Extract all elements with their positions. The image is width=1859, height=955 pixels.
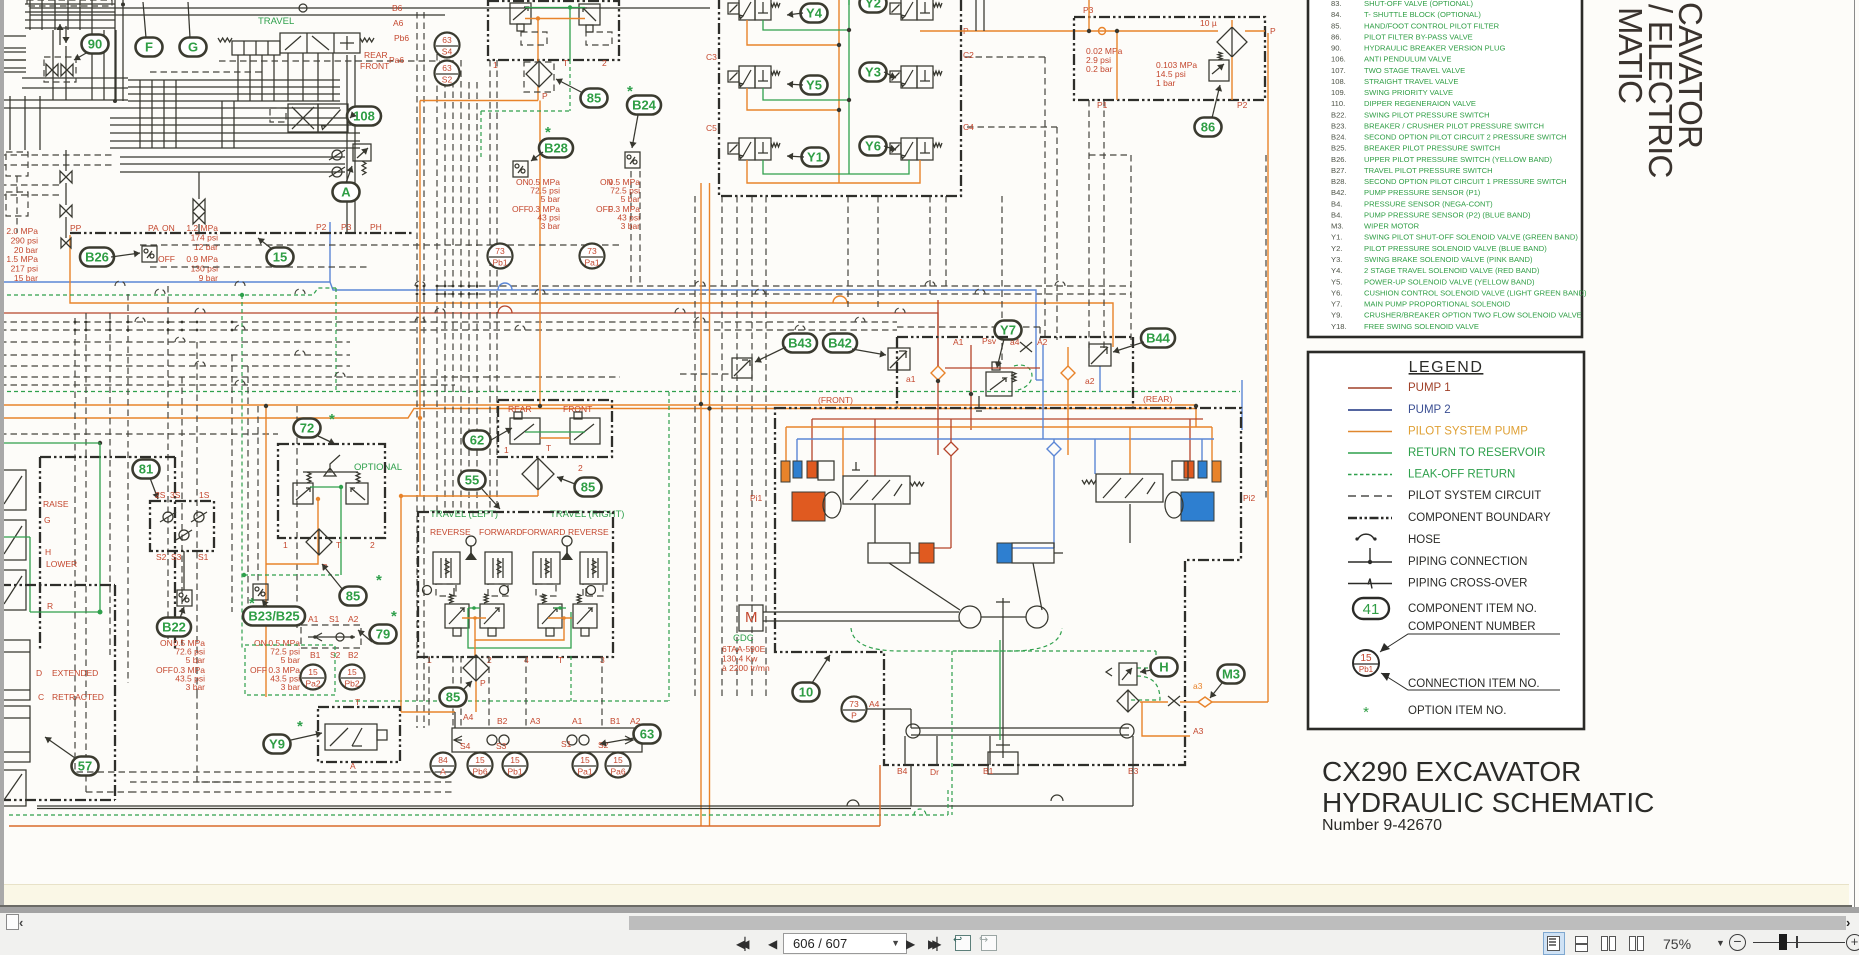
svg-text:Y2: Y2 [865, 0, 881, 11]
wire green return [9, 814, 948, 816]
svg-text:A: A [341, 185, 351, 200]
pump P1 circle [959, 606, 981, 628]
wire blue A2 drop [1042, 380, 1044, 439]
filter 85 diamond [526, 61, 552, 87]
svg-text:B27.: B27. [1331, 166, 1347, 175]
wire sensor drop x1104 [1103, 100, 1105, 350]
component Y2 callout [860, 0, 887, 13]
solenoid valve Y3 [890, 66, 942, 88]
svg-text:H: H [1159, 660, 1168, 675]
svg-text:PILOT SYSTEM PUMP: PILOT SYSTEM PUMP [1408, 426, 1528, 438]
wire pilot drop x453 [452, 60, 454, 512]
svg-text:TWO STAGE TRAVEL VALVE: TWO STAGE TRAVEL VALVE [1364, 66, 1465, 75]
pump servo REAR colored [1212, 461, 1221, 482]
filter 85 left diamond [463, 655, 489, 681]
wire pilot bus y355 [0, 354, 350, 356]
wire sensor drop x1089 [1088, 100, 1090, 350]
svg-text:B23/B25: B23/B25 [248, 609, 299, 624]
wire psv dashed row [897, 326, 1040, 328]
valve pilot R [579, 4, 600, 25]
wire pilot bus y286 [437, 285, 1131, 287]
valve travel main [280, 33, 360, 53]
svg-text:3 bar: 3 bar [621, 221, 641, 231]
wire orange pump drop [1195, 409, 1197, 428]
svg-text:SWING BRAKE SOLENOID VALVE (PI: SWING BRAKE SOLENOID VALVE (PINK BAND) [1364, 255, 1533, 264]
wire A4 drop [454, 712, 456, 728]
svg-text:57: 57 [78, 759, 92, 774]
svg-text:9 bar: 9 bar [199, 273, 219, 283]
label 15 [267, 248, 294, 267]
svg-text:F: F [145, 40, 153, 55]
leak green box [245, 645, 335, 695]
wire pilot bus y330 [0, 329, 897, 331]
component boundary Y9 [318, 707, 400, 762]
svg-text:PRESSURE SENSOR (NEGA-CONT): PRESSURE SENSOR (NEGA-CONT) [1364, 199, 1493, 208]
wire sensor drop x1002 [1001, 196, 1003, 360]
wire orange main [1089, 30, 1218, 32]
wire mesh rails G [0, 51, 26, 53]
svg-text:a4: a4 [1010, 337, 1020, 347]
svg-text:Y2.: Y2. [1331, 244, 1342, 253]
wire mesh rails C [110, 117, 360, 119]
svg-text:RETURN TO RESERVOIR: RETURN TO RESERVOIR [1408, 447, 1545, 459]
component boundary left [40, 456, 175, 458]
svg-text:HYDRAULIC SCHEMATIC: HYDRAULIC SCHEMATIC [1322, 787, 1654, 818]
legend item PILOT SYSTEM PUMP [1348, 431, 1392, 433]
svg-text:C: C [38, 692, 44, 702]
svg-text:15: 15 [1360, 653, 1372, 664]
svg-text:ON: ON [160, 638, 173, 648]
label 10 [793, 683, 820, 702]
wire orange pump row [786, 426, 1212, 428]
wire 72 orange [266, 500, 318, 564]
connection 15/Pa1 [573, 753, 598, 778]
wire solenoid drop x752 [751, 196, 753, 700]
svg-text:2: 2 [602, 58, 607, 68]
horizontal scrollbar track [0, 913, 1859, 930]
svg-text:PUMP PRESSURE SENSOR (P2) (BLU: PUMP PRESSURE SENSOR (P2) (BLUE BAND) [1364, 210, 1531, 219]
piping cross [1020, 342, 1032, 352]
piping cross orange [1168, 696, 1180, 706]
svg-text:S4: S4 [460, 741, 471, 751]
svg-text:Pi1: Pi1 [750, 493, 763, 503]
svg-text:5 bar: 5 bar [621, 194, 641, 204]
svg-text:Psv: Psv [982, 336, 997, 346]
svg-text:PIPING CONNECTION: PIPING CONNECTION [1408, 556, 1527, 568]
valve 90 element 2 [61, 64, 73, 76]
svg-text:A2: A2 [348, 614, 359, 624]
svg-text:PILOT SYSTEM CIRCUIT: PILOT SYSTEM CIRCUIT [1408, 490, 1541, 502]
label 85 [440, 688, 467, 707]
svg-text:P: P [480, 678, 486, 688]
label B26 [80, 248, 114, 267]
pilot lever 72 [303, 455, 358, 476]
wire travel orange long [475, 618, 564, 640]
connection 15/Pa2 [301, 665, 326, 690]
svg-text:*: * [627, 83, 633, 100]
svg-text:Pb6: Pb6 [394, 33, 409, 43]
regulator FRONT [843, 476, 910, 504]
history back/forward icons [955, 935, 971, 951]
svg-text:Y7.: Y7. [1331, 300, 1342, 309]
svg-text:5 bar: 5 bar [186, 655, 206, 665]
label Y9 [264, 735, 291, 754]
wire sensor drop x1045 [1044, 57, 1046, 340]
svg-text:A3: A3 [530, 716, 541, 726]
cylinder C [0, 706, 30, 762]
wire motor links [763, 611, 959, 613]
svg-text:Y1: Y1 [807, 150, 823, 165]
svg-text:BREAKER PILOT PRESSURE SWITCH: BREAKER PILOT PRESSURE SWITCH [1364, 144, 1500, 153]
svg-text:15: 15 [347, 667, 357, 677]
legend item RETURN TO RESERVOIR [1348, 452, 1392, 454]
svg-text:OFF: OFF [512, 204, 529, 214]
valve travel pilot R [570, 418, 600, 444]
svg-text:85: 85 [587, 91, 601, 106]
wire green loop [0, 442, 100, 444]
label B24 [627, 96, 661, 115]
check pair 2 [567, 735, 577, 745]
wire solenoid drop x722 [721, 196, 723, 700]
wire return main [37, 805, 1133, 807]
label 81 [133, 460, 160, 479]
label B43 [783, 334, 817, 353]
svg-text:T: T [563, 58, 568, 68]
svg-text:B4: B4 [897, 766, 908, 776]
svg-text:41: 41 [1363, 601, 1380, 618]
svg-text:UPPER PILOT PRESSURE SWITCH (Y: UPPER PILOT PRESSURE SWITCH (YELLOW BAND… [1364, 155, 1553, 164]
svg-text:ON: ON [254, 638, 267, 648]
component boundary 81 [150, 501, 214, 551]
wire green drain long [958, 650, 1156, 652]
wire blue reg [1094, 439, 1096, 474]
wire servo links [874, 504, 876, 543]
svg-text:PH: PH [370, 222, 382, 232]
legend item CONNECTION ITEM NO. [1381, 673, 1560, 690]
label F [136, 38, 163, 57]
label 55 [459, 471, 486, 490]
wire sensor drop x631 [630, 171, 632, 283]
valve 79 box [301, 625, 361, 648]
valve travel pilot assembly [232, 41, 280, 55]
gear box [988, 752, 1018, 774]
wire orange drops [1116, 31, 1118, 100]
svg-text:86.: 86. [1331, 32, 1342, 41]
wire orange P3 [1088, 0, 1090, 31]
svg-text:B24: B24 [632, 98, 657, 113]
wire travel drops [237, 55, 239, 101]
wire sensor drop x1131 [1130, 155, 1132, 345]
svg-text:Y9.: Y9. [1331, 311, 1342, 320]
svg-text:REAR: REAR [364, 50, 388, 60]
svg-text:Pa6: Pa6 [610, 767, 625, 777]
wire blue pump row [797, 438, 1214, 440]
svg-text:*: * [391, 608, 397, 625]
svg-text:63: 63 [442, 35, 452, 45]
svg-text:C4: C4 [963, 122, 974, 132]
connection 63/S2 [435, 61, 460, 86]
svg-text:10: 10 [799, 685, 813, 700]
wire travel green long [468, 608, 571, 648]
page bottom cream edge [4, 884, 1849, 907]
wire orange pilot supply bus [0, 404, 1196, 406]
svg-text:S2: S2 [442, 75, 453, 85]
svg-text:1: 1 [504, 445, 509, 455]
wire pilot drop x128 [127, 294, 129, 683]
component boundary pump [775, 408, 1241, 765]
legend item COMPONENT ITEM NO. [1353, 598, 1389, 619]
nav next page buttons [906, 937, 915, 951]
label M3 [1218, 665, 1245, 684]
wire mesh rails B [0, 99, 128, 101]
wire pilot bus y342 [0, 341, 350, 343]
label 62 [464, 431, 491, 450]
svg-text:Pb6: Pb6 [472, 767, 487, 777]
svg-text:6TAA-590E: 6TAA-590E [722, 644, 766, 654]
component boundary REAR/FRONT [498, 400, 612, 457]
wire pilot drop x437 [436, 54, 438, 512]
wire green pump drain [951, 651, 953, 815]
svg-text:Y4.: Y4. [1331, 266, 1342, 275]
svg-text:Pb1: Pb1 [507, 767, 522, 777]
label 72 [294, 419, 321, 438]
svg-text:STRAIGHT TRAVEL VALVE: STRAIGHT TRAVEL VALVE [1364, 77, 1458, 86]
svg-text:CRUSHER/BREAKER OPTION TWO FLO: CRUSHER/BREAKER OPTION TWO FLOW SOLENOID… [1364, 311, 1582, 320]
svg-text:B43: B43 [788, 336, 812, 351]
svg-text:B26.: B26. [1331, 155, 1347, 164]
wire blue pump2 line [0, 282, 1036, 380]
pump piston FRONT [868, 543, 910, 563]
wire mesh verts I [221, 101, 223, 148]
connection 15/Pb2 [340, 665, 365, 690]
svg-text:*: * [545, 124, 551, 141]
svg-text:1 bar: 1 bar [1156, 78, 1176, 88]
svg-text:S1: S1 [198, 552, 209, 562]
svg-text:B23.: B23. [1331, 121, 1347, 130]
svg-text:a3: a3 [1193, 681, 1203, 691]
legend item PUMP 1 [1348, 387, 1392, 389]
svg-text:90: 90 [88, 37, 102, 52]
component Y3 callout [860, 63, 887, 82]
svg-text:G: G [188, 40, 198, 55]
svg-text:Y5: Y5 [806, 78, 822, 93]
legend item PUMP 2 [1348, 409, 1392, 411]
wire red pump1 line [0, 313, 938, 366]
wire pilot drop x424 [423, 12, 425, 728]
svg-text:B2: B2 [348, 650, 359, 660]
svg-text:Pb2: Pb2 [344, 679, 359, 689]
svg-text:PUMP PRESSURE SENSOR (P1): PUMP PRESSURE SENSOR (P1) [1364, 188, 1481, 197]
label B22 [157, 618, 191, 637]
svg-text:S3: S3 [496, 741, 507, 751]
svg-text:PIPING CROSS-OVER: PIPING CROSS-OVER [1408, 578, 1528, 590]
svg-text:Pb1: Pb1 [1359, 665, 1374, 674]
svg-text:B1: B1 [310, 650, 321, 660]
wire orange tp [540, 437, 570, 439]
valve relief A [332, 150, 342, 160]
svg-text:à 2200 tr/mn: à 2200 tr/mn [722, 663, 770, 673]
junction dots [264, 404, 268, 408]
svg-text:3 bar: 3 bar [281, 682, 301, 692]
svg-text:M3.: M3. [1331, 222, 1344, 231]
svg-text:C5: C5 [706, 123, 717, 133]
svg-text:B2: B2 [497, 716, 508, 726]
sensor B26 [142, 246, 157, 262]
svg-text:10 µ: 10 µ [1200, 18, 1217, 28]
valve fragment bottom left [0, 770, 26, 806]
svg-text:MATIC: MATIC [1612, 7, 1649, 103]
filter 10 micron [1217, 27, 1247, 57]
wire green leak drop [569, 60, 571, 111]
svg-text:Y7: Y7 [1000, 323, 1016, 338]
wire green tp [525, 431, 585, 433]
pump servo FRONT colored [781, 461, 790, 482]
wire blue P2 stub [329, 222, 331, 282]
svg-text:B26: B26 [85, 250, 109, 265]
wire green link [525, 7, 585, 9]
svg-text:EXTENDED: EXTENDED [52, 668, 98, 678]
svg-text:15: 15 [308, 667, 318, 677]
svg-text:T- SHUTTLE BLOCK (OPTIONAL): T- SHUTTLE BLOCK (OPTIONAL) [1364, 10, 1481, 19]
label B42 [823, 334, 857, 353]
label B44 [1141, 329, 1175, 348]
svg-text:2: 2 [578, 463, 583, 473]
svg-text:ON: ON [162, 223, 175, 233]
pump piston REAR [1012, 543, 1054, 563]
svg-text:(FRONT): (FRONT) [818, 395, 853, 405]
svg-text:5 bar: 5 bar [541, 194, 561, 204]
svg-text:C3: C3 [706, 52, 717, 62]
solenoid valve Y2 [890, 0, 942, 20]
orange diamond a1 [931, 366, 945, 380]
orange diamond a2 [1061, 366, 1075, 380]
svg-text:63: 63 [640, 727, 654, 742]
valve travel pilot L [510, 418, 540, 444]
svg-text:PILOT FILTER BY-PASS VALVE: PILOT FILTER BY-PASS VALVE [1364, 32, 1473, 41]
legend box [1308, 352, 1584, 729]
wire Y2 risers [975, 0, 977, 31]
wire red a1 [937, 300, 939, 366]
label 86 [1195, 118, 1222, 137]
regulator REAR [1096, 474, 1163, 502]
wire orange solenoid bus [838, 0, 840, 183]
svg-text:2S: 2S [155, 490, 166, 500]
component Y4 callout [801, 4, 828, 23]
component boundary pressure block [1074, 17, 1265, 100]
wire 72 green [310, 486, 341, 488]
svg-text:Y18.: Y18. [1331, 322, 1347, 331]
connection 73/Pb1 [488, 244, 513, 269]
svg-text:a1: a1 [906, 374, 916, 384]
svg-text:55: 55 [465, 473, 479, 488]
page bottom border [0, 905, 1852, 907]
svg-text:15: 15 [580, 755, 590, 765]
scrollbar left stepper [6, 914, 19, 930]
svg-text:15: 15 [273, 250, 287, 265]
svg-text:2: 2 [370, 540, 375, 550]
svg-text:84.: 84. [1331, 10, 1342, 19]
sensor B43 target [732, 358, 752, 378]
wire solenoid drop x766 [765, 196, 767, 700]
svg-text:84: 84 [438, 755, 448, 765]
component Y5 callout [801, 76, 828, 95]
svg-text:62: 62 [470, 433, 484, 448]
valve Y9 [325, 724, 377, 750]
svg-text:S1: S1 [329, 614, 340, 624]
svg-text:109.: 109. [1331, 88, 1346, 97]
wire mesh rails A [128, 79, 340, 81]
svg-text:TRAVEL (LEFT): TRAVEL (LEFT) [430, 509, 498, 520]
wire red servo [950, 419, 952, 442]
svg-text:Dr: Dr [930, 767, 939, 777]
svg-text:15: 15 [475, 755, 485, 765]
wire pilot bus y366 [0, 365, 350, 367]
wire pilot drop x490 [489, 60, 491, 512]
svg-text:*: * [376, 572, 382, 589]
wire shaft bottom [867, 708, 911, 710]
label 57 [72, 757, 99, 776]
svg-text:86: 86 [1201, 120, 1215, 135]
svg-text:H: H [45, 547, 51, 557]
wire pilot drop x297 [296, 406, 298, 628]
label H [1151, 658, 1178, 677]
svg-text:A1: A1 [953, 337, 964, 347]
wire mesh verts [9, 96, 11, 150]
wire pilot drop x168 [167, 286, 169, 640]
svg-text:CONNECTION ITEM NO.: CONNECTION ITEM NO. [1408, 678, 1540, 690]
wire top verts [29, 0, 31, 30]
zoom slider [1753, 942, 1845, 944]
svg-text:SWING PRIORITY VALVE: SWING PRIORITY VALVE [1364, 88, 1453, 97]
component Y1 callout [802, 148, 829, 167]
svg-text:3S: 3S [170, 490, 181, 500]
svg-text:A4: A4 [869, 699, 880, 709]
wire pilot drop x75 [74, 318, 76, 700]
wire pilot bus y377 [0, 376, 620, 378]
svg-text:A1: A1 [572, 716, 583, 726]
svg-text:FORWARD: FORWARD [479, 527, 522, 537]
wire orange right edge [1267, 33, 1269, 697]
pump P2 circle [1026, 606, 1048, 628]
wire red hose hump [498, 306, 512, 313]
label 79 [370, 625, 397, 644]
svg-text:BREAKER / CRUSHER PILOT PRESSU: BREAKER / CRUSHER PILOT PRESSURE SWITCH [1364, 121, 1544, 130]
wire drop x1262 [1265, 155, 1267, 500]
svg-text:B28.: B28. [1331, 177, 1347, 186]
label Y7 [995, 321, 1022, 340]
valve 72 internals [293, 483, 313, 504]
svg-text:T: T [355, 697, 360, 707]
svg-text:RETRACTED: RETRACTED [52, 692, 104, 702]
svg-text:PP: PP [70, 223, 82, 233]
viewer gap [0, 907, 1859, 913]
svg-text:83.: 83. [1331, 0, 1342, 8]
wire sensor drop x878 [877, 196, 879, 307]
legend item PILOT SYSTEM CIRCUIT [1348, 495, 1392, 497]
svg-text:0.2 bar: 0.2 bar [1086, 64, 1113, 74]
svg-text:SWING PILOT SHUT-OFF SOLENOID: SWING PILOT SHUT-OFF SOLENOID VALVE (GRE… [1364, 233, 1578, 242]
legend connection circle [1353, 650, 1379, 676]
svg-text:73: 73 [587, 246, 597, 256]
wire red psv link [945, 367, 1040, 369]
svg-text:85: 85 [581, 480, 595, 495]
sensor B23/B25 [253, 584, 268, 600]
svg-text:CDC: CDC [733, 633, 754, 644]
svg-text:PUMP 1: PUMP 1 [1408, 382, 1451, 394]
orange check a3 [1198, 697, 1212, 707]
travel valves row2 [445, 604, 469, 628]
svg-text:Pa1: Pa1 [584, 258, 599, 268]
